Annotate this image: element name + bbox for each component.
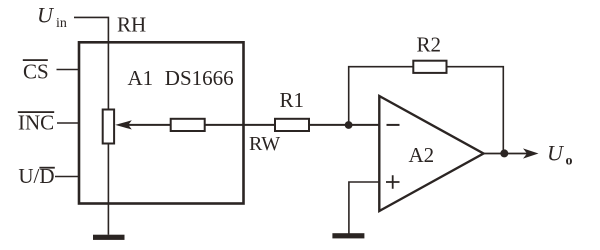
op-amp A2 <box>379 96 483 211</box>
output arrow head <box>523 148 539 158</box>
wire RW node: wiper through R1 to inverting input <box>128 124 380 126</box>
svg-text:INC: INC <box>18 110 54 134</box>
overline CS <box>23 59 48 61</box>
svg-text:in: in <box>56 16 67 31</box>
svg-text:R1: R1 <box>280 88 305 112</box>
minus sign at inverting input <box>387 124 400 126</box>
overline D <box>39 167 54 169</box>
resistor R2 <box>413 61 446 73</box>
wire U/D to box <box>55 176 80 178</box>
potentiometer element inside DS1666 <box>103 110 114 144</box>
wire Uin to RH terminal and down through pot to ground <box>74 17 108 234</box>
svg-text:U: U <box>37 3 55 28</box>
plus sign at non-inverting input <box>386 175 400 189</box>
ground bar under DS1666 <box>93 235 125 240</box>
junction dot at output node <box>500 149 508 157</box>
svg-text:RW: RW <box>249 133 280 155</box>
feedback wire through R2 <box>349 67 504 154</box>
svg-text:RH: RH <box>117 13 146 37</box>
DS1666 box A1 <box>79 42 244 203</box>
wire CS to box <box>57 69 81 71</box>
internal resistor RW <box>171 119 205 131</box>
wire non-inverting input to ground <box>349 182 380 234</box>
resistor R1 <box>275 119 309 131</box>
svg-text:DS1666: DS1666 <box>165 66 234 90</box>
wiper arrow <box>115 120 132 129</box>
svg-text:CS: CS <box>23 60 49 84</box>
svg-text:A1: A1 <box>128 66 154 90</box>
svg-text:U: U <box>547 141 565 166</box>
svg-text:o: o <box>566 154 573 169</box>
svg-text:R2: R2 <box>417 33 442 57</box>
junction dot at inverting input node <box>345 121 353 129</box>
ground bar under op-amp <box>332 233 364 238</box>
svg-text:A2: A2 <box>409 143 435 167</box>
wire INC to box <box>57 122 80 124</box>
overline INC <box>18 111 54 113</box>
output wire <box>484 153 532 155</box>
